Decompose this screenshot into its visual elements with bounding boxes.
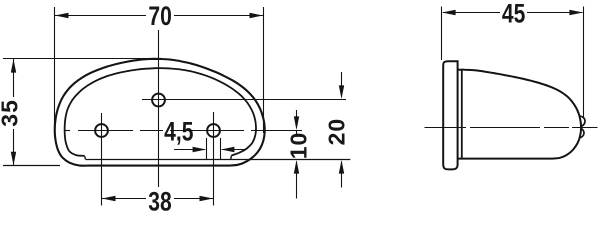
svg-text:10: 10 [285,132,311,160]
svg-text:45: 45 [502,0,525,29]
svg-text:70: 70 [148,2,171,32]
svg-text:38: 38 [148,187,171,213]
svg-text:35: 35 [0,99,22,127]
svg-text:20: 20 [323,118,349,146]
svg-text:4,5: 4,5 [164,117,193,147]
